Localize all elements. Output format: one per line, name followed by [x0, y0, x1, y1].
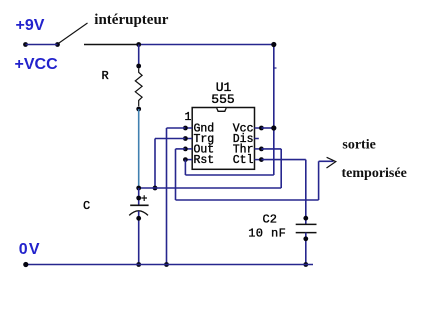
junction C2 on 0V rail [303, 262, 308, 267]
capacitor C curved plate [129, 211, 148, 216]
wire Trg down to cap node [154, 139, 156, 189]
pin 1 Gnd dot [183, 126, 188, 131]
svg-text:temporisée: temporisée [342, 166, 407, 181]
resistor R bottom terminal dot [136, 107, 141, 112]
wire Gnd down to 0V rail [166, 128, 168, 265]
wire C2 bottom [305, 233, 307, 265]
wire Out up to arrow [318, 161, 320, 200]
wire Ctl pin right [261, 159, 305, 161]
svg-text:C: C [83, 199, 90, 213]
wire top rail [139, 44, 274, 46]
wire between switch terminals [26, 44, 58, 46]
wire cap C top [138, 188, 140, 205]
capacitor C top plate [130, 204, 148, 206]
IC U1 555 body [192, 108, 254, 170]
resistor R zigzag [135, 68, 142, 106]
pin 4 Rst dot [183, 157, 188, 162]
switch S1 right terminal dot [55, 42, 60, 47]
pin 2 Trg dot [183, 136, 188, 141]
wire to resistor top [138, 45, 140, 67]
wire Vcc pin to rail [261, 127, 273, 129]
cap C plus terminal dot [136, 196, 141, 201]
junction top of resistor branch [136, 42, 141, 47]
C2 bottom terminal dot [303, 236, 308, 241]
wire Out across bottom [176, 199, 319, 201]
wire Rst to Vcc rail [185, 174, 273, 176]
pin 6 Thr stub [255, 148, 262, 150]
pin 8 Vcc stub [255, 127, 262, 129]
pin 1 Gnd stub [185, 127, 192, 129]
wire cap node horizontal [139, 187, 282, 189]
junction Gnd on 0V rail [164, 262, 169, 267]
wire cap C bottom [138, 211, 140, 265]
junction Trg cap node [153, 186, 158, 191]
svg-text:10 nF: 10 nF [248, 226, 286, 240]
switch S1 left terminal dot [23, 42, 28, 47]
wire vertical Vcc rail [273, 45, 275, 176]
node 0V terminal dot [23, 262, 28, 267]
wire 0V rail [26, 264, 313, 266]
svg-text:0V: 0V [19, 241, 41, 258]
svg-text:1: 1 [185, 111, 192, 124]
capacitor C2 top plate [296, 223, 317, 225]
junction top right corner [271, 42, 276, 47]
junction Vcc rail [271, 125, 276, 130]
wire Gnd pin left [167, 127, 186, 129]
pin 3 Out dot [183, 147, 188, 152]
svg-text:Ctl: Ctl [233, 154, 254, 167]
svg-text:Rst: Rst [194, 154, 215, 167]
wire Ctl down to C2 [305, 160, 307, 224]
svg-text:sortie: sortie [342, 138, 375, 153]
IC notch [217, 108, 227, 111]
svg-text:C2: C2 [263, 213, 277, 227]
wire Thr pin right [261, 148, 281, 150]
svg-text:+VCC: +VCC [15, 56, 59, 73]
arrowhead sortie [327, 157, 336, 168]
wire Thr down to cap node [280, 149, 282, 188]
pin 8 Vcc dot [259, 126, 264, 131]
pin 5 Ctl dot [259, 157, 264, 162]
junction cap C on 0V rail [136, 262, 141, 267]
wire resistor bottom to cap node (light blue) [138, 109, 140, 188]
svg-text:+9V: +9V [16, 17, 45, 34]
wire Trg pin left [155, 138, 185, 140]
wire Out pin left [176, 148, 186, 150]
capacitor C2 bottom plate [296, 232, 317, 234]
wire Out down [175, 149, 177, 200]
svg-text:intérupteur: intérupteur [94, 12, 169, 28]
svg-text:555: 555 [211, 92, 234, 107]
cap C bottom terminal dot [136, 216, 141, 221]
wire switch to resistor node (black) [84, 44, 139, 46]
pin 7 Dis stub [255, 138, 259, 140]
resistor R top terminal dot [136, 64, 141, 69]
pin 2 Trg stub [185, 138, 192, 140]
cap C polarity plus sign [141, 195, 147, 201]
pin 4 Rst stub [185, 159, 192, 161]
wire arrow shaft [319, 160, 334, 162]
junction cap node left [136, 186, 141, 191]
pin 5 Ctl stub [255, 159, 262, 161]
pin 3 Out stub [185, 148, 192, 150]
switch S1 blade [59, 23, 88, 43]
wire Rst pin down [184, 160, 186, 175]
pin 6 Thr dot [259, 147, 264, 152]
pin 8 tick [274, 67, 277, 69]
C2 top terminal dot [303, 216, 308, 221]
svg-text:R: R [102, 69, 109, 83]
